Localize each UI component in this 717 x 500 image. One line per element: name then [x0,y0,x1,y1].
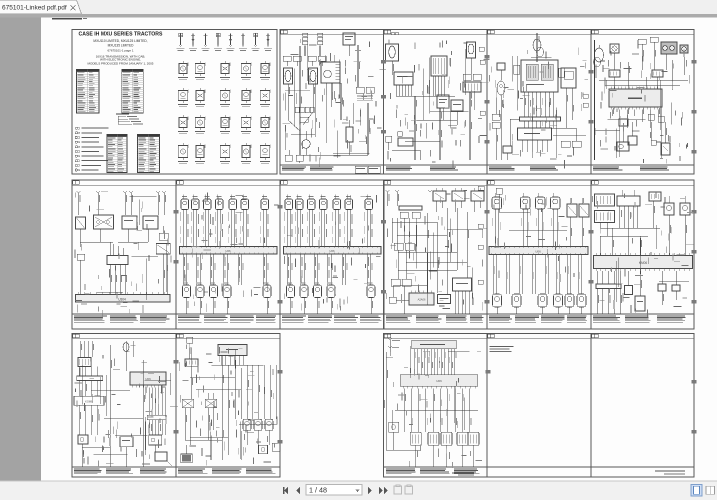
right relay pair R2C5 [567,198,589,247]
panel frame R2C3 [280,180,384,329]
svg-text:U06: U06 [436,379,442,383]
annotation text marks [185,193,279,312]
wire segments [392,346,470,430]
module A06 [438,295,451,304]
connector bar U06 R2C3 [284,247,382,255]
svg-text:675101-Linked pdf.pdf: 675101-Linked pdf.pdf [2,5,67,12]
annotation text marks [386,190,486,311]
solenoid actuators bottom R3C4 [410,432,479,467]
wire segments [424,49,475,139]
wire segments [96,196,167,300]
lower wire pairs R2C3 [287,254,372,285]
valve Y1 [182,399,194,445]
rotate-page icons disabled [394,485,413,494]
wire labels R1C6 [600,50,687,147]
sensor components R2C3 [284,195,372,247]
resistor block tall [346,120,353,155]
svg-text:67675101-1 page 1: 67675101-1 page 1 [107,48,133,52]
sensor B3 oval [386,44,399,75]
tab close button [71,5,76,10]
right bottom pair boxes [551,128,581,147]
left ground box [77,254,85,295]
relay row top right [428,186,484,212]
side connector K5 [514,65,565,77]
title text CASE IH MXU SERIES TRACTORS [79,31,163,65]
wire bus from switch [524,92,553,117]
left connector grid top [592,194,614,223]
svg-text:MODELS PRODUCED FROM JANUARY 1: MODELS PRODUCED FROM JANUARY 1, 2005 [88,62,154,66]
module A07 [453,278,472,314]
relay K2 box [343,33,355,56]
wire loop figure [533,33,544,62]
sensor oval left [497,81,505,160]
connector X5 [619,114,664,126]
wire segments [191,348,277,460]
wire segments [617,225,689,302]
KOMB box R3C2 [181,445,193,463]
footer legend text [593,167,669,171]
lower wire pairs R2C2 [183,254,268,285]
panel frame R3C5 [487,334,591,478]
horizontal link wires R2C5 [499,212,567,230]
connector boxes K1 [283,56,326,66]
ECU U06 wide box [609,87,662,110]
connector cluster right [356,87,374,100]
single-page-view icon active [691,485,702,497]
top middle connector [617,190,640,228]
panel frame R2C5 [487,180,591,329]
print header fragment [52,18,87,20]
switch S12 box [143,216,158,229]
sheet label R3C6 [655,471,685,475]
bottom actuators R2C2 [183,283,272,315]
top sensor comps R2C5 [492,193,560,247]
connector strip with boxes [399,206,422,218]
prev-page button [296,487,300,494]
relay K10 with crossed coil [94,215,114,229]
wires to junction [80,229,148,256]
svg-text:KM06: KM06 [639,261,648,265]
routing horizontals R2C4 [392,222,467,300]
module A06 top [218,345,247,366]
switch S10 box [76,217,86,229]
right edge ref labels [479,47,485,115]
annotation text marks [597,192,693,317]
ECU U06 R3C1 [130,372,166,388]
fuse table D [138,135,160,173]
annotation text marks [282,39,386,167]
wire segments [286,69,354,151]
pin grid connector X1 [429,56,448,96]
wires below U06 [612,108,660,128]
control unit A box [394,72,455,96]
lower left wire cluster [596,271,622,314]
footer legend text [386,469,480,475]
panel frame R1C4 [384,30,488,175]
connector identification figure [116,114,143,125]
wire labels R1C4 [400,100,472,157]
solenoid B1 [284,68,293,100]
edge reference tabs [173,55,696,444]
bottom components R1C6 [595,122,671,155]
connector bar U304 [76,292,171,302]
sensor components R2C2 [180,195,268,247]
routing verticals R2C4 [392,208,469,314]
panel frame title sheet [72,30,277,175]
annotation text marks [387,351,482,468]
valve Y2 [205,393,217,440]
pressure switch box top [412,340,457,349]
wire bundle under U06 [147,388,166,435]
connector bar U06 R3C4 [400,375,478,389]
left bus bar [77,367,103,397]
annotation text marks [490,47,588,168]
collector bar [520,117,561,128]
branch wires [285,90,313,163]
right wire group R3C2 [247,365,276,419]
wire color table B [122,70,144,114]
horn H1 [302,131,310,155]
page box dropdown caret [356,490,360,493]
top small box [496,188,502,212]
two-page-view icon [706,486,715,494]
panel frame R3C2 [176,334,280,478]
module A3 box [451,100,463,111]
panel frame R2C1 [72,180,176,329]
annotation text marks [75,191,172,319]
top stub wires R3C1 [80,341,133,357]
right module cluster [156,226,170,295]
bottom middle components R3C1 [120,435,172,467]
svg-text:MXU135 LIMITED: MXU135 LIMITED [108,44,135,48]
symbol legend grid rows [178,61,271,164]
relay box right [561,68,576,128]
flasher oval figure [594,40,604,160]
wire segments [83,365,171,455]
hydraulic sheet label [452,473,474,476]
switch S11 box [122,216,137,229]
lamp cluster right [661,42,688,75]
svg-text:1 / 48: 1 / 48 [309,485,327,494]
supply wire stubs [77,191,167,215]
panel frame R2C2 [176,180,280,329]
wire labels R1C5 [489,75,574,157]
lower wire pairs R2C5 [493,255,582,295]
fuse table C [107,135,127,173]
motor M1 block [321,62,340,95]
footer legend text [489,167,558,171]
distribution wires top [599,60,688,90]
right sensor cluster [243,419,280,454]
svg-text:CASE IH MXU SERIES TRACTORS: CASE IH MXU SERIES TRACTORS [79,31,163,37]
connector boxes row [609,70,663,77]
continued frame boxes [355,166,380,173]
panel frame R2C4 [384,180,488,329]
wire trunk vertical right [300,45,370,155]
bottom left relay cluster [386,131,414,150]
panel frame R3C6 [591,334,694,478]
note text block R3C5 [490,346,514,352]
wire segments [285,45,369,158]
top stub wires R3C4 [388,338,400,356]
tab bar background [0,0,717,14]
KOMB cluster box [74,396,104,435]
left column connectors [492,96,500,160]
solenoid B2 [309,68,318,100]
module A2A06 [409,291,434,306]
annotation text marks [179,344,278,466]
footer legend text [489,316,587,323]
switch S1 boxes [638,37,658,70]
routing wires R1C4 [392,92,472,160]
footer legend text [74,469,167,475]
footer legend text [74,316,169,323]
node marker OO [392,32,399,35]
connector bar U06 R2C2 [180,247,278,255]
footer legend text [386,316,483,323]
left component R3C4 [384,352,420,450]
toolbar band [0,14,717,17]
wire segments [416,218,483,305]
ignition switch block [521,60,558,92]
right edge labels R2C4 [478,224,483,284]
sidebar [0,17,41,481]
active tab [0,0,82,14]
next-page button [368,487,372,494]
footer legend text [282,316,381,323]
footer legend text [593,316,686,323]
left connector pairs [389,243,414,303]
annotation text marks [595,40,690,164]
fuse stack F1 [303,33,323,56]
footer legend text [178,469,276,475]
connector bar KM06 [594,253,693,271]
footer legend text [386,167,458,171]
ground boxes [285,155,303,161]
module A2 box [437,95,449,108]
relay K box top left [497,63,505,80]
svg-text:A2A06: A2A06 [418,298,426,302]
center trunks R3C2 [185,356,241,460]
footer legend text [282,167,334,171]
annotation text marks [494,195,575,282]
bottom actuators R2C5 [493,294,587,314]
right edge ref labels c5 [583,94,588,107]
trunk wires R3C1 [82,345,145,467]
right connector cluster [463,74,481,92]
junction block [107,256,128,295]
annotation text marks [74,345,178,467]
svg-text:MXU110 LIMITED, MXU125 LIMITED: MXU110 LIMITED, MXU125 LIMITED, [93,39,147,43]
sensor B4 right oval [467,42,476,74]
panel frame R2C6 [591,180,694,329]
wire labels R1C3 [285,60,370,132]
footer legend text [178,316,276,323]
symbol legend grid [177,33,273,51]
annotation text marks [388,39,490,169]
panel frame R1C5 [487,30,591,175]
symbol legend list [75,127,108,171]
first-page button [283,487,288,494]
lamp E1 [610,44,619,70]
dense wire bundle R3C4 [415,349,457,375]
top small box R3C2 [187,337,193,359]
page number box [306,485,362,496]
bottom actuators R2C3 [287,283,376,315]
bottom left component [78,435,88,467]
panel frame R1C6 [591,30,694,175]
module boxes lower middle [625,271,646,311]
svg-text:U06: U06 [145,377,151,381]
bottom component [503,146,512,160]
panel frame R3C4 [384,334,488,478]
oval component top [123,343,129,372]
relay bank row [295,107,314,122]
annotation text marks [284,195,381,311]
wires below bar R3C4 [395,389,478,433]
connector block A-A [78,358,91,367]
left connector R3C2 [185,359,198,399]
top right boxes [649,192,690,256]
wire segments [513,56,586,158]
distribution horizontals R2C6 [600,223,660,256]
stub wires top left [386,190,400,206]
bottom toolbar [0,481,717,500]
wire segments [607,80,671,158]
wire color table A [77,70,100,114]
connector bar U06 R2C5 [489,247,588,255]
panel frame R3C1 [72,334,176,478]
lower right boxes [658,271,680,305]
ECU box lower [510,119,552,152]
last-page button [379,487,388,494]
panel frame R1C3 [280,30,384,175]
svg-text:U304: U304 [118,297,126,301]
